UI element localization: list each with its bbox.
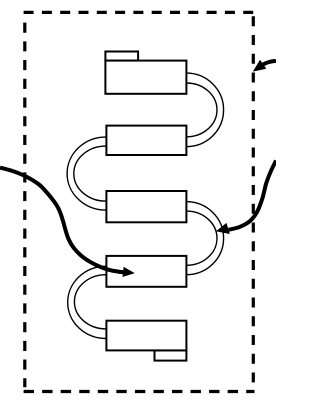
U-connector between block 3 and block 4 (right side), outer arc xyxy=(186,202,223,275)
U-connector between block 2 and block 3 (left side), inner arc xyxy=(74,146,106,201)
right annotation arrow head xyxy=(217,224,229,234)
tab on bottom-right of block 5 xyxy=(155,350,187,360)
right annotation arrow shaft (curves from right edge to U-connector 3-4) xyxy=(229,161,277,230)
top-right annotation arrow shaft (from right edge toward dashed border) xyxy=(261,61,277,66)
block 3 xyxy=(106,191,186,222)
tab on top-left of block 1 xyxy=(105,52,138,61)
left annotation arrow head xyxy=(123,268,133,277)
left annotation arrow shaft (curves from left edge into block 4) xyxy=(0,168,124,273)
U-connector between block 2 and block 3 (left side), outer arc xyxy=(67,137,106,210)
block 4 xyxy=(106,256,186,287)
dashed boundary box right edge xyxy=(252,16,255,382)
U-connector between block 1 and block 2 (right side), outer arc xyxy=(186,73,223,147)
dashed boundary box left edge xyxy=(23,23,26,388)
U-connector between block 3 and block 4 (right side), inner arc xyxy=(186,211,217,265)
block 2 xyxy=(106,126,186,155)
block 1 (top) xyxy=(105,61,186,94)
block 5 (bottom) xyxy=(106,321,186,351)
U-connector between block 4 and block 5 (left side), outer arc xyxy=(68,266,106,338)
top-right annotation arrow head xyxy=(254,61,266,71)
dashed boundary box bottom edge xyxy=(24,390,255,393)
dashed boundary box top edge xyxy=(24,11,255,14)
U-connector between block 1 and block 2 (right side), inner arc xyxy=(186,83,217,137)
U-connector between block 4 and block 5 (left side), inner arc xyxy=(74,275,105,329)
